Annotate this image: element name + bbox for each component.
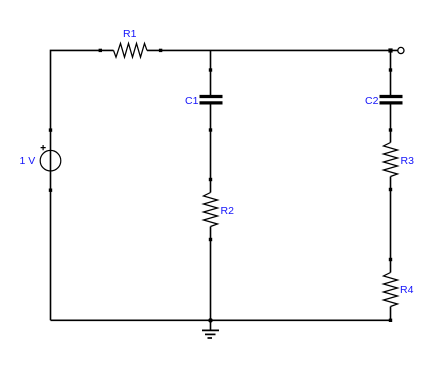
capacitor C1 bottom plate [200, 101, 223, 104]
wire right branch between C2 and R3 [390, 105, 392, 143]
wire left rail and top-left segment [51, 50, 114, 320]
node junction top right (square dot) [388, 48, 392, 52]
open terminal [398, 47, 404, 53]
terminal dot C1 bottom [209, 128, 212, 131]
terminal dot C2 bottom [389, 128, 392, 131]
resistor R3 [384, 143, 398, 177]
node junction bottom middle (round dot) [208, 318, 213, 323]
wire through source [50, 150, 52, 171]
wire middle branch top [210, 50, 212, 95]
terminal dot R1 right [159, 49, 162, 52]
resistor R2 [204, 193, 218, 227]
wire bottom rail [51, 319, 391, 321]
capacitor C2 top plate [380, 95, 403, 98]
wire right branch top [390, 50, 392, 95]
resistor R1 [114, 43, 148, 57]
terminal dot R3 bottom [389, 188, 392, 191]
terminal dot R4 bottom [389, 319, 392, 322]
wire middle branch below R2 [210, 227, 212, 321]
svg-text:C1: C1 [185, 95, 199, 107]
svg-text:R1: R1 [123, 28, 137, 40]
resistor R4 [384, 273, 398, 307]
wire right branch below R4 [390, 307, 392, 321]
svg-text:R3: R3 [401, 155, 415, 167]
svg-text:R4: R4 [400, 284, 414, 296]
terminal dot R2 bottom [209, 238, 212, 241]
voltage source VS1 circle [40, 150, 61, 171]
terminal dot C1 top [209, 68, 212, 71]
svg-text:C2: C2 [365, 95, 379, 107]
wire right branch between R3 and R4 [390, 177, 392, 273]
terminal dot R1 left [99, 49, 102, 52]
ground [210, 321, 212, 331]
terminal dot source top [49, 128, 52, 131]
plus sign [41, 145, 46, 150]
capacitor C1 top plate [200, 95, 223, 98]
terminal dot R4 top [389, 258, 392, 261]
svg-text:1 V: 1 V [20, 155, 36, 167]
wire top segment right of R1 to open terminal [147, 49, 398, 51]
svg-text:R2: R2 [221, 205, 235, 217]
wire middle branch between C1 and R2 [210, 105, 212, 193]
terminal dot R2 top [209, 178, 212, 181]
terminal dot C2 top [389, 68, 392, 71]
capacitor C2 bottom plate [380, 101, 403, 104]
terminal dot source bottom [49, 189, 52, 192]
